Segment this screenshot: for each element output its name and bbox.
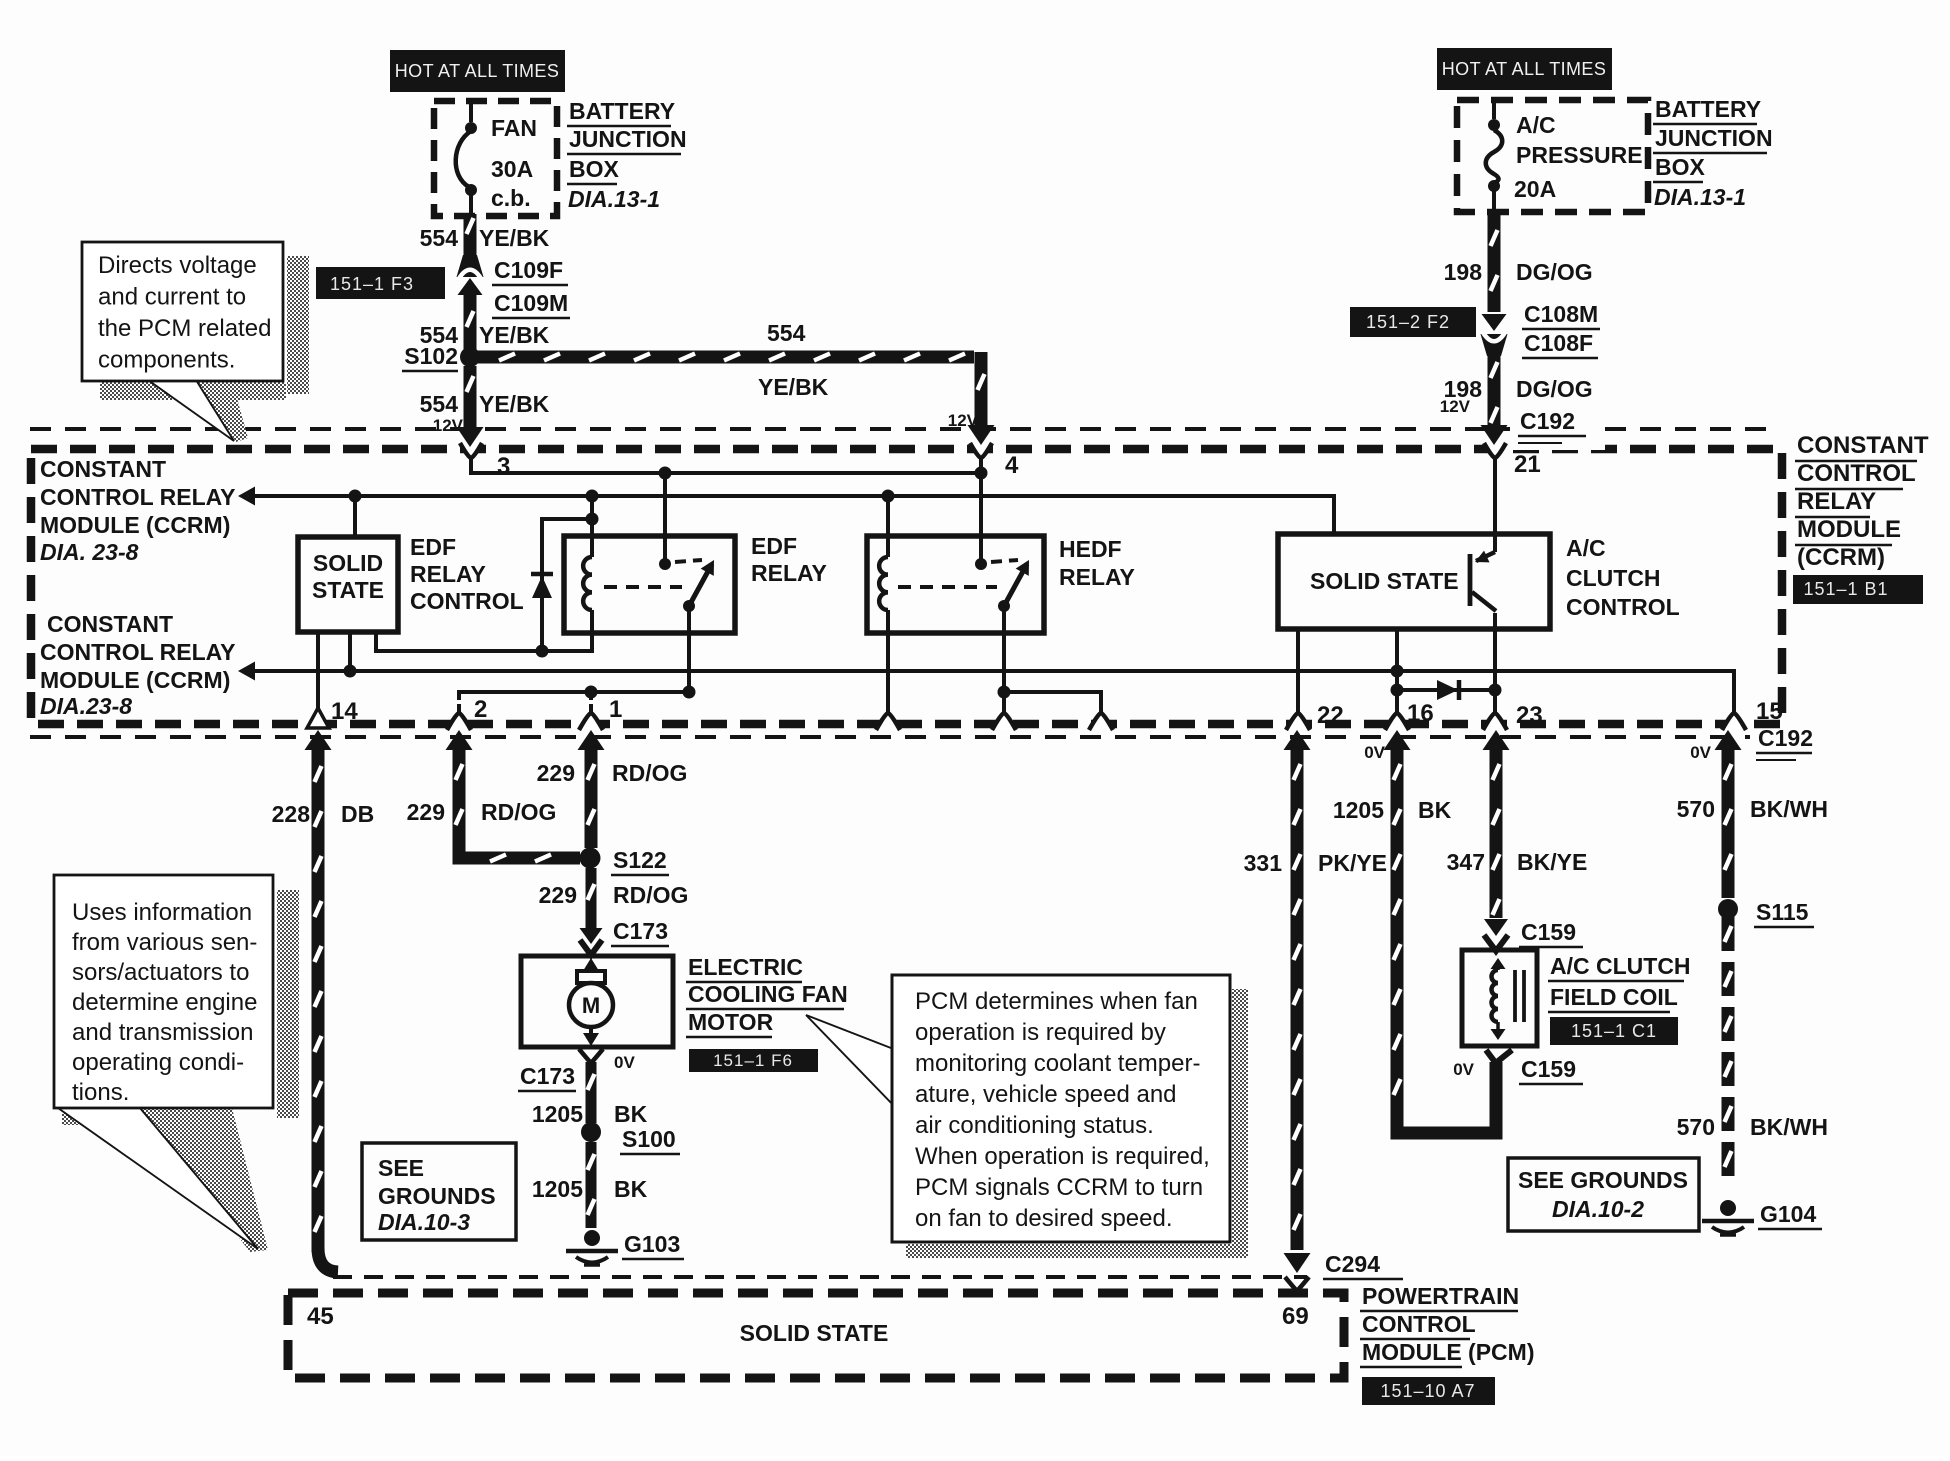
svg-text:0V: 0V [1364,743,1385,762]
svg-text:S115: S115 [1756,899,1809,925]
svg-text:228: 228 [272,801,311,827]
svg-text:229: 229 [407,799,445,825]
svg-text:RELAY: RELAY [1797,488,1876,515]
svg-text:(CCRM): (CCRM) [1797,544,1885,571]
svg-text:BK/WH: BK/WH [1750,1114,1828,1140]
svg-text:DIA.10-3: DIA.10-3 [378,1209,470,1235]
svg-text:M: M [582,993,600,1018]
svg-text:22: 22 [1317,702,1344,729]
svg-text:C294: C294 [1325,1251,1380,1277]
svg-text:sors/actuators to: sors/actuators to [72,959,249,986]
svg-text:C108F: C108F [1524,330,1593,356]
svg-text:FIELD COIL: FIELD COIL [1550,984,1678,1010]
svg-text:570: 570 [1677,796,1715,822]
svg-text:BK/YE: BK/YE [1517,849,1587,875]
svg-text:151–10 A7: 151–10 A7 [1380,1381,1475,1401]
svg-text:HOT AT ALL TIMES: HOT AT ALL TIMES [1442,59,1606,79]
svg-text:HOT AT ALL TIMES: HOT AT ALL TIMES [395,61,559,81]
svg-text:CONTROL: CONTROL [410,588,524,614]
svg-text:SOLID STATE: SOLID STATE [1310,568,1459,594]
svg-text:PCM determines when fan: PCM determines when fan [915,988,1198,1015]
svg-text:and transmission: and transmission [72,1019,253,1046]
svg-text:1205: 1205 [532,1176,583,1202]
svg-text:SOLID STATE: SOLID STATE [740,1320,889,1346]
svg-text:C109M: C109M [494,290,568,316]
svg-text:DG/OG: DG/OG [1516,376,1593,402]
svg-text:C159: C159 [1521,1056,1576,1082]
svg-text:A/C: A/C [1566,535,1606,561]
svg-text:BK/WH: BK/WH [1750,796,1828,822]
svg-text:components.: components. [98,347,235,374]
svg-text:MODULE: MODULE [1797,516,1901,543]
svg-text:CONSTANT: CONSTANT [47,611,173,637]
svg-text:14: 14 [331,698,358,725]
svg-text:When operation is required,: When operation is required, [915,1143,1210,1170]
svg-text:DB: DB [341,801,374,827]
svg-text:from various sen-: from various sen- [72,929,257,956]
svg-text:MODULE (CCRM): MODULE (CCRM) [40,667,230,693]
svg-text:HEDF: HEDF [1059,536,1122,562]
svg-text:YE/BK: YE/BK [479,225,550,251]
svg-text:CONSTANT: CONSTANT [1797,432,1929,459]
svg-text:CONTROL: CONTROL [1566,594,1680,620]
svg-text:G103: G103 [624,1231,680,1257]
svg-text:BATTERY: BATTERY [1655,96,1761,122]
svg-text:DG/OG: DG/OG [1516,259,1593,285]
svg-text:151–1 B1: 151–1 B1 [1803,579,1888,599]
svg-text:4: 4 [1005,452,1019,479]
svg-text:DIA.10-2: DIA.10-2 [1552,1196,1644,1222]
svg-text:CONTROL: CONTROL [1362,1311,1476,1337]
svg-text:MODULE (CCRM): MODULE (CCRM) [40,512,230,538]
svg-text:1205: 1205 [532,1101,583,1127]
svg-text:151–1 F6: 151–1 F6 [713,1051,793,1070]
svg-text:C192: C192 [1758,725,1813,751]
svg-text:MOTOR: MOTOR [688,1009,774,1035]
svg-text:CONTROL RELAY: CONTROL RELAY [40,484,236,510]
svg-text:23: 23 [1516,702,1543,729]
svg-text:C192: C192 [1520,408,1575,434]
svg-text:ature, vehicle speed and: ature, vehicle speed and [915,1081,1177,1108]
svg-text:JUNCTION: JUNCTION [569,126,687,152]
svg-text:DIA.13-1: DIA.13-1 [1654,184,1746,210]
svg-text:A/C: A/C [1516,112,1556,138]
svg-text:C109F: C109F [494,257,563,283]
svg-text:SEE: SEE [378,1155,424,1181]
svg-text:0V: 0V [614,1053,635,1072]
svg-text:on fan to desired speed.: on fan to desired speed. [915,1205,1173,1232]
svg-text:GROUNDS: GROUNDS [378,1183,496,1209]
svg-text:570: 570 [1677,1114,1715,1140]
svg-text:554: 554 [420,391,459,417]
svg-text:monitoring coolant temper-: monitoring coolant temper- [915,1050,1200,1077]
svg-text:DIA.13-1: DIA.13-1 [568,186,660,212]
svg-text:BK: BK [614,1101,648,1127]
svg-text:EDF: EDF [410,534,456,560]
svg-text:331: 331 [1244,850,1283,876]
svg-text:c.b.: c.b. [491,185,531,211]
svg-text:YE/BK: YE/BK [479,391,550,417]
svg-text:BOX: BOX [1655,154,1706,180]
svg-text:198: 198 [1444,259,1483,285]
svg-text:21: 21 [1514,451,1541,478]
svg-text:RD/OG: RD/OG [613,882,688,908]
svg-text:69: 69 [1282,1303,1309,1330]
svg-text:3: 3 [497,453,510,480]
svg-text:30A: 30A [491,156,533,182]
svg-text:CONSTANT: CONSTANT [40,456,166,482]
svg-text:151–1 F3: 151–1 F3 [330,274,414,294]
svg-text:RD/OG: RD/OG [481,799,556,825]
svg-text:12V: 12V [948,411,979,430]
svg-text:S122: S122 [613,847,667,873]
svg-text:DIA.23-8: DIA.23-8 [40,693,132,719]
svg-text:C173: C173 [613,918,668,944]
svg-text:determine engine: determine engine [72,989,257,1016]
svg-text:PCM signals CCRM to turn: PCM signals CCRM to turn [915,1174,1203,1201]
svg-text:CLUTCH: CLUTCH [1566,565,1661,591]
svg-text:1205: 1205 [1333,797,1384,823]
svg-text:PRESSURE: PRESSURE [1516,142,1643,168]
svg-text:DIA. 23-8: DIA. 23-8 [40,539,139,565]
svg-text:S100: S100 [622,1126,676,1152]
svg-text:the PCM related: the PCM related [98,315,271,342]
svg-text:RELAY: RELAY [410,561,486,587]
svg-text:RELAY: RELAY [1059,564,1135,590]
svg-text:Uses information: Uses information [72,899,252,926]
svg-text:20A: 20A [1514,176,1556,202]
svg-text:SOLID: SOLID [313,550,383,576]
svg-text:JUNCTION: JUNCTION [1655,125,1773,151]
svg-text:C108M: C108M [1524,301,1598,327]
svg-text:PK/YE: PK/YE [1318,850,1387,876]
svg-text:1: 1 [609,696,622,723]
svg-text:MODULE (PCM): MODULE (PCM) [1362,1339,1534,1365]
svg-text:554: 554 [767,320,806,346]
svg-text:0V: 0V [1453,1060,1474,1079]
svg-text:CONTROL RELAY: CONTROL RELAY [40,639,236,665]
svg-text:FAN: FAN [491,115,537,141]
svg-text:POWERTRAIN: POWERTRAIN [1362,1283,1519,1309]
svg-text:EDF: EDF [751,533,797,559]
svg-text:RD/OG: RD/OG [612,760,687,786]
svg-text:0V: 0V [1690,743,1711,762]
svg-text:operating condi-: operating condi- [72,1049,244,1076]
svg-text:tions.: tions. [72,1079,129,1106]
svg-text:G104: G104 [1760,1201,1816,1227]
svg-text:16: 16 [1407,700,1434,727]
svg-text:BK: BK [614,1176,648,1202]
svg-text:operation is required by: operation is required by [915,1019,1166,1046]
svg-text:Directs voltage: Directs voltage [98,252,257,279]
svg-text:COOLING FAN: COOLING FAN [688,981,848,1007]
svg-text:2: 2 [474,696,487,723]
svg-text:CONTROL: CONTROL [1797,460,1916,487]
svg-text:554: 554 [420,225,459,251]
svg-text:YE/BK: YE/BK [479,322,550,348]
svg-text:347: 347 [1447,849,1485,875]
svg-text:151–2 F2: 151–2 F2 [1366,312,1450,332]
svg-text:15: 15 [1756,698,1783,725]
svg-text:BOX: BOX [569,156,620,182]
svg-text:12V: 12V [433,416,464,435]
svg-text:C173: C173 [520,1063,575,1089]
svg-text:C159: C159 [1521,919,1576,945]
svg-text:A/C CLUTCH: A/C CLUTCH [1550,953,1691,979]
svg-text:12V: 12V [1440,397,1471,416]
svg-text:229: 229 [537,760,575,786]
svg-text:45: 45 [307,1303,334,1330]
svg-text:SEE GROUNDS: SEE GROUNDS [1518,1167,1688,1193]
svg-text:151–1 C1: 151–1 C1 [1571,1021,1657,1041]
svg-text:air conditioning status.: air conditioning status. [915,1112,1154,1139]
svg-text:and current to: and current to [98,284,246,311]
svg-text:YE/BK: YE/BK [758,374,829,400]
svg-text:BATTERY: BATTERY [569,98,675,124]
svg-text:STATE: STATE [312,577,384,603]
svg-text:S102: S102 [404,343,458,369]
svg-text:229: 229 [539,882,577,908]
svg-text:BK: BK [1418,797,1452,823]
svg-text:RELAY: RELAY [751,560,827,586]
svg-text:ELECTRIC: ELECTRIC [688,954,803,980]
